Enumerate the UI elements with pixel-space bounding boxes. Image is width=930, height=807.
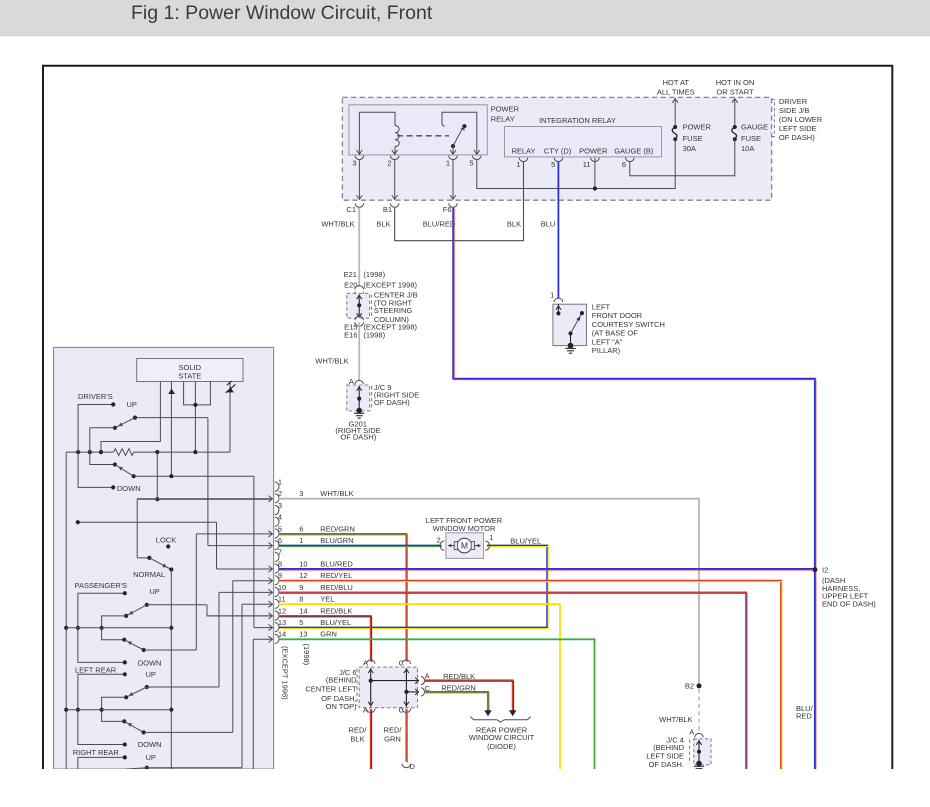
svg-text:NORMAL: NORMAL [133,570,165,579]
svg-text:CENTER LEFT: CENTER LEFT [305,685,357,694]
svg-text:(EXCEPT 1998): (EXCEPT 1998) [281,646,290,700]
svg-text:9: 9 [278,571,282,580]
svg-text:WHT/BLK: WHT/BLK [320,489,353,498]
svg-text:E16: E16 [344,331,357,340]
svg-text:WHT/BLK: WHT/BLK [659,715,692,724]
svg-text:6: 6 [299,524,303,533]
svg-text:INTEGRATION RELAY: INTEGRATION RELAY [539,116,616,125]
svg-text:(BEHIND: (BEHIND [326,676,357,685]
svg-text:RED/BLK: RED/BLK [443,672,475,681]
svg-text:UP: UP [146,753,156,762]
svg-text:BLU/RED: BLU/RED [320,559,353,568]
svg-text:A: A [425,671,430,680]
svg-text:B2: B2 [685,682,694,691]
svg-text:9: 9 [299,583,303,592]
svg-text:12: 12 [278,606,286,615]
svg-text:RELAY: RELAY [491,114,515,123]
svg-text:SIDE J/B: SIDE J/B [779,106,809,115]
svg-text:HOT AT: HOT AT [663,78,690,87]
svg-text:(1998): (1998) [302,644,311,666]
svg-text:E20: E20 [344,281,357,290]
svg-text:DRIVER: DRIVER [779,97,808,106]
svg-text:RED/GRN: RED/GRN [320,524,355,533]
svg-text:RED/BLU: RED/BLU [320,583,353,592]
svg-text:(DIODE): (DIODE) [487,742,516,751]
svg-text:FRONT DOOR: FRONT DOOR [592,311,643,320]
svg-text:UP: UP [149,587,159,596]
svg-text:PILLAR): PILLAR) [592,346,621,355]
svg-text:FUSE: FUSE [683,134,703,143]
svg-text:YEL: YEL [320,595,334,604]
svg-text:5: 5 [299,618,303,627]
svg-text:END OF DASH): END OF DASH) [822,599,876,608]
svg-text:WHT/BLK: WHT/BLK [321,220,354,229]
svg-text:BLU/YEL: BLU/YEL [510,537,541,546]
svg-text:I2: I2 [822,565,828,574]
svg-text:(AT BASE OF: (AT BASE OF [592,329,638,338]
svg-text:Fig 1: Power Window Circuit, F: Fig 1: Power Window Circuit, Front [131,2,433,24]
svg-text:BLU: BLU [541,220,556,229]
svg-text:OR START: OR START [716,87,754,96]
svg-text:11: 11 [583,160,591,169]
svg-text:GRN: GRN [384,734,401,743]
svg-text:POWER: POWER [491,104,520,113]
svg-text:(ON LOWER: (ON LOWER [779,115,823,124]
svg-text:1: 1 [299,536,303,545]
svg-text:E21: E21 [344,270,357,279]
svg-text:POWER: POWER [683,123,712,132]
svg-text:HOT IN ON: HOT IN ON [716,78,755,87]
svg-text:6: 6 [278,536,282,545]
svg-text:1: 1 [516,160,520,169]
svg-text:C: C [399,658,405,667]
svg-text:COURTESY SWITCH: COURTESY SWITCH [592,320,665,329]
svg-text:OF DASH.: OF DASH. [649,760,684,769]
svg-text:WINDOW CIRCUIT: WINDOW CIRCUIT [469,733,535,742]
svg-text:10A: 10A [741,144,754,153]
svg-text:WINDOW MOTOR: WINDOW MOTOR [433,524,496,533]
svg-text:GAUGE: GAUGE [741,123,768,132]
svg-text:5: 5 [551,160,555,169]
svg-text:A: A [689,728,694,737]
svg-text:PASSENGER'S: PASSENGER'S [75,581,128,590]
svg-text:2: 2 [437,535,441,544]
svg-text:3: 3 [299,489,303,498]
svg-text:LEFT "A": LEFT "A" [592,337,623,346]
svg-text:3: 3 [278,501,282,510]
svg-text:2: 2 [278,489,282,498]
svg-text:A: A [363,658,368,667]
svg-text:GAUGE (B): GAUGE (B) [614,146,654,155]
svg-text:4: 4 [278,513,282,522]
svg-text:10: 10 [299,559,307,568]
svg-text:C1: C1 [346,205,356,214]
svg-text:6: 6 [622,160,626,169]
svg-text:DRIVER'S: DRIVER'S [78,392,113,401]
svg-text:1: 1 [489,533,493,542]
svg-text:POWER: POWER [579,146,608,155]
svg-text:BLK: BLK [507,220,521,229]
svg-text:FUSE: FUSE [741,134,761,143]
svg-text:BLK: BLK [350,734,364,743]
svg-text:11: 11 [278,595,286,604]
svg-text:BLK: BLK [376,220,390,229]
svg-text:LEFT SIDE: LEFT SIDE [779,124,817,133]
svg-text:GRN: GRN [320,630,337,639]
svg-text:CTY (D): CTY (D) [544,146,572,155]
svg-text:3: 3 [352,158,356,167]
svg-text:(EXCEPT 1998): (EXCEPT 1998) [363,281,417,290]
svg-text:RED: RED [796,711,812,720]
svg-text:OF DASH): OF DASH) [779,133,815,142]
svg-text:B1: B1 [383,205,392,214]
svg-text:14: 14 [299,606,307,615]
svg-text:ALL TIMES: ALL TIMES [657,87,695,96]
svg-text:12: 12 [299,571,307,580]
svg-text:DOWN: DOWN [117,484,141,493]
svg-text:7: 7 [278,548,282,557]
svg-text:5: 5 [278,524,282,533]
svg-text:1: 1 [550,291,554,300]
svg-text:8: 8 [278,559,282,568]
svg-text:30A: 30A [683,144,696,153]
svg-text:ON TOP): ON TOP) [326,702,357,711]
svg-text:WHT/BLK: WHT/BLK [315,357,348,366]
svg-text:10: 10 [278,583,286,592]
svg-text:F6: F6 [443,205,452,214]
svg-text:STATE: STATE [178,371,201,380]
svg-text:RELAY: RELAY [511,146,535,155]
svg-text:OF DASH): OF DASH) [374,398,410,407]
svg-text:BLU/GRN: BLU/GRN [320,536,353,545]
svg-text:(1998): (1998) [363,331,385,340]
svg-text:DOWN: DOWN [138,658,162,667]
svg-text:RED/BLK: RED/BLK [320,606,352,615]
svg-text:(1998): (1998) [363,270,385,279]
svg-text:OF DASH): OF DASH) [340,433,376,442]
svg-text:DOWN: DOWN [138,740,162,749]
svg-text:14: 14 [278,630,286,639]
svg-text:8: 8 [299,595,303,604]
svg-text:5: 5 [469,158,473,167]
svg-text:M: M [461,541,468,551]
svg-text:D: D [410,762,416,771]
svg-text:LEFT: LEFT [592,302,611,311]
svg-text:A: A [363,705,368,714]
svg-text:1: 1 [278,477,282,486]
svg-text:C: C [399,705,405,714]
svg-text:13: 13 [278,618,286,627]
svg-text:LOCK: LOCK [156,536,176,545]
svg-text:STEERING: STEERING [374,306,413,315]
svg-text:2: 2 [387,158,391,167]
svg-text:RED/GRN: RED/GRN [441,684,476,693]
svg-text:LEFT REAR: LEFT REAR [75,665,117,674]
svg-text:1: 1 [446,158,450,167]
svg-text:BLU/YEL: BLU/YEL [320,618,351,627]
svg-text:BLU/RED: BLU/RED [423,220,456,229]
svg-text:13: 13 [299,630,307,639]
svg-text:UP: UP [127,400,137,409]
svg-text:RED/YEL: RED/YEL [320,571,352,580]
svg-text:RIGHT REAR: RIGHT REAR [73,748,120,757]
svg-text:UP: UP [146,670,156,679]
